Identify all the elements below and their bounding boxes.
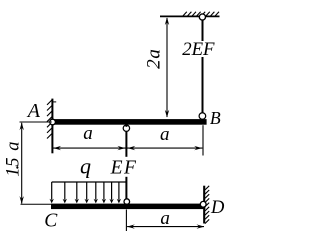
ceiling hatching — [183, 12, 220, 17]
svg-text:D: D — [210, 198, 225, 218]
wall support at D — [203, 186, 205, 224]
extension line left of A (beam level) — [20, 121, 52, 123]
svg-text:EF: EF — [110, 158, 138, 179]
label B — [210, 108, 221, 128]
svg-text:2a: 2a — [143, 48, 164, 69]
dimension 2a line — [165, 17, 169, 117]
pin circle at A — [50, 119, 56, 125]
extension line below B — [202, 125, 204, 155]
distributed load q top line — [52, 181, 127, 183]
pin circle at B — [199, 113, 206, 120]
wall D hatching — [205, 186, 209, 224]
label q — [80, 153, 91, 178]
label a (under CD) — [160, 208, 170, 229]
hinge circle mid of AB — [123, 125, 129, 131]
svg-text:A: A — [26, 100, 41, 122]
label 1.5a — [3, 142, 23, 177]
extension line below hinge on CD — [125, 210, 127, 232]
rod EF — [125, 131, 127, 199]
svg-text:2EF: 2EF — [182, 39, 215, 60]
label 2a — [143, 48, 164, 69]
pin circle at D — [200, 201, 206, 207]
label 2EF — [181, 39, 217, 60]
label a (left half of AB) — [83, 123, 93, 144]
svg-text:a: a — [83, 123, 93, 144]
label A — [26, 100, 41, 122]
dimension 1.5a line — [20, 123, 24, 204]
svg-text:a: a — [160, 124, 170, 145]
svg-text:a: a — [160, 208, 170, 229]
dimension a under CD — [127, 224, 204, 228]
ceiling support line — [160, 15, 220, 17]
distributed load arrows — [52, 182, 119, 200]
label D — [210, 198, 225, 218]
extension line left of C — [21, 203, 52, 205]
wall A hatching — [47, 100, 52, 139]
beam CD — [51, 204, 205, 210]
rod EF upper stub into hinge — [125, 124, 127, 127]
hinge circle on CD — [124, 199, 130, 205]
svg-text:C: C — [44, 211, 58, 232]
wall support at A — [52, 99, 56, 154]
rod 2EF (vertical tie) — [202, 17, 204, 116]
dimension line a+a under beam AB — [52, 146, 202, 150]
beam AB — [52, 119, 207, 125]
pin circle at ceiling — [199, 14, 205, 20]
svg-text:B: B — [210, 108, 221, 128]
label a (right half of AB) — [160, 124, 170, 145]
svg-text:q: q — [80, 153, 91, 178]
label EF — [110, 157, 138, 179]
label C — [44, 211, 58, 232]
